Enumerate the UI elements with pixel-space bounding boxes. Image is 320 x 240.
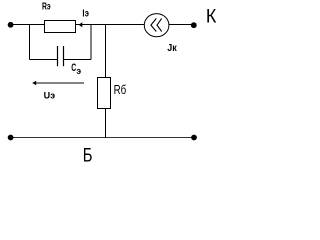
svg-text:Iэ: Iэ [82, 7, 89, 18]
svg-text:Rэ: Rэ [42, 0, 51, 12]
svg-text:К: К [206, 5, 217, 27]
svg-text:э: э [76, 66, 81, 76]
svg-text:Rб: Rб [114, 84, 127, 98]
svg-text:Б: Б [83, 144, 93, 167]
svg-text:Uэ: Uэ [44, 90, 55, 100]
svg-text:Jк: Jк [167, 43, 177, 55]
